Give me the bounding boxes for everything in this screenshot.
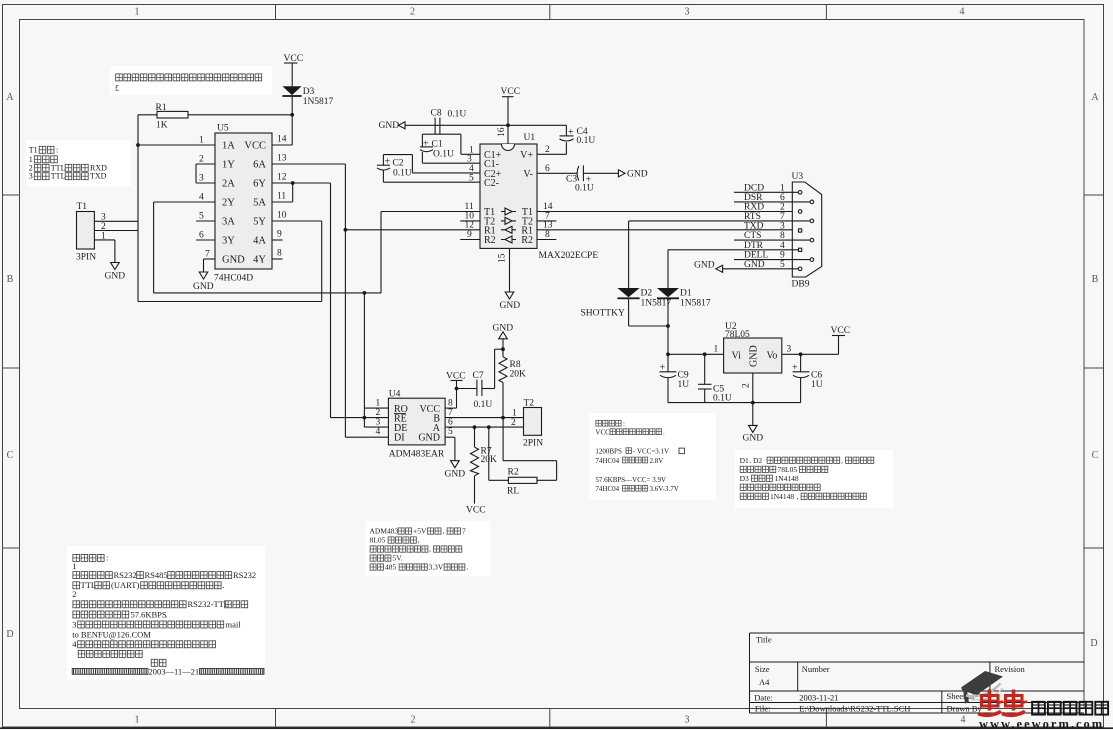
wire DTR down to D1	[667, 250, 669, 288]
svg-text:7: 7	[462, 527, 466, 536]
svg-text:1: 1	[72, 561, 76, 571]
svg-text:3Y: 3Y	[222, 236, 235, 247]
svg-text:13: 13	[277, 154, 287, 164]
svg-text:2003—11—21: 2003—11—21	[149, 667, 200, 677]
U2 pin3 wire	[782, 353, 839, 355]
svg-text:1: 1	[780, 183, 785, 193]
svg-text:C1: C1	[432, 140, 443, 150]
svg-text:4: 4	[376, 427, 381, 437]
svg-text:3: 3	[376, 418, 381, 428]
svg-text:R8: R8	[510, 360, 521, 370]
svg-text:1200BPS: 1200BPS	[595, 448, 622, 456]
svg-text:12: 12	[465, 220, 475, 230]
svg-text:GND: GND	[193, 282, 214, 292]
svg-text:Revision: Revision	[995, 664, 1026, 674]
svg-text:RS485: RS485	[145, 570, 168, 580]
eeworm logo red bug glyph 2	[1002, 690, 1027, 716]
eeworm logo black site name characters	[1032, 702, 1045, 715]
svg-text:1N5817: 1N5817	[641, 299, 672, 309]
junction R1in / 6A riser	[344, 228, 348, 232]
svg-text:14: 14	[277, 135, 287, 145]
wire C3 to ground arrow	[583, 172, 618, 174]
svg-text:6: 6	[199, 231, 204, 241]
wire 2Y down to line A	[153, 202, 155, 293]
svg-text:C7: C7	[473, 371, 484, 381]
svg-text:VCC: VCC	[831, 326, 851, 336]
capacitor C3 0.1U	[577, 166, 579, 181]
svg-text:5A: 5A	[253, 198, 266, 209]
signature hatch bar right	[200, 669, 265, 675]
svg-text:4: 4	[780, 241, 785, 251]
wire down to U4 RO/RE	[363, 293, 365, 427]
svg-text:7: 7	[448, 408, 453, 418]
svg-text::: :	[623, 420, 625, 428]
connector T2 2PIN	[524, 408, 542, 436]
svg-text:78L05: 78L05	[778, 465, 798, 474]
svg-text:Drawn By: Drawn By	[947, 704, 983, 714]
U4 pin4 wire	[345, 436, 388, 438]
svg-text:Number: Number	[802, 664, 830, 674]
svg-text:5: 5	[199, 212, 204, 222]
svg-text:74HC04: 74HC04	[595, 485, 619, 493]
U1 T1out wire to DB9 RXD	[537, 211, 798, 213]
svg-text:Title: Title	[756, 635, 772, 645]
svg-text:DSR: DSR	[744, 193, 763, 203]
svg-text:GND: GND	[743, 434, 764, 444]
svg-text:2003-11-21: 2003-11-21	[799, 693, 838, 703]
U5 pin 2 stub	[196, 163, 215, 165]
svg-text:MAX202ECPE: MAX202ECPE	[539, 251, 599, 261]
svg-text:R2: R2	[484, 235, 496, 246]
eeworm logo red bug glyph 1	[978, 690, 1003, 716]
svg-text:D: D	[1090, 638, 1097, 649]
svg-text:8: 8	[545, 230, 550, 240]
diode D3 1N5817	[282, 86, 301, 95]
U5 pin 11 stub	[272, 201, 293, 203]
svg-text:.: .	[750, 456, 752, 465]
svg-text:2: 2	[410, 7, 415, 18]
svg-text:TXD: TXD	[744, 222, 764, 232]
svg-text:Size: Size	[755, 664, 770, 674]
svg-text:VCC: VCC	[466, 506, 486, 516]
junction R1/D3/pin14	[290, 113, 294, 117]
svg-text:D3: D3	[740, 474, 749, 483]
svg-text:485: 485	[385, 563, 397, 572]
wire diode cathodes join	[628, 299, 630, 326]
svg-text:D: D	[6, 629, 13, 640]
svg-text:R2: R2	[508, 468, 519, 478]
svg-text:6: 6	[545, 164, 550, 174]
svg-text:DTR: DTR	[744, 241, 764, 251]
wire 6A down to U4 DI	[344, 164, 346, 437]
svg-text:3: 3	[467, 155, 472, 165]
svg-text:GND: GND	[418, 432, 440, 443]
eeworm logo graduation cap	[961, 671, 1003, 693]
U4 pin1 wire	[364, 407, 388, 409]
svg-text:GND: GND	[379, 121, 400, 131]
svg-text:,: ,	[841, 456, 843, 465]
svg-text:1K: 1K	[156, 121, 168, 131]
U1 T1in wire	[381, 211, 480, 213]
svg-text:D2: D2	[641, 289, 653, 299]
svg-text:C6: C6	[811, 371, 822, 381]
svg-text:1: 1	[199, 136, 204, 146]
resistor R2 RL loop	[488, 427, 490, 480]
connector U3 DB9 shell	[792, 182, 821, 277]
U1 pin15 ground	[509, 248, 511, 292]
wire line B	[138, 301, 322, 303]
title block column divider size/number	[797, 662, 799, 691]
capacitor C7 0.1U	[457, 388, 477, 390]
svg-text:0.1U: 0.1U	[575, 184, 594, 194]
svg-text:1N5817: 1N5817	[303, 97, 334, 107]
U5 pin 10 wire 5Y	[272, 220, 322, 222]
svg-text:1: 1	[135, 715, 140, 726]
svg-text:VCC: VCC	[595, 429, 610, 437]
U1 R2in stub	[460, 239, 480, 241]
svg-text:GND: GND	[105, 272, 126, 282]
U5 pin 1 wire	[138, 144, 215, 146]
U1 T2out stub	[537, 220, 556, 222]
resistor R8 20K	[502, 349, 504, 357]
svg-text:3.3V: 3.3V	[429, 563, 444, 572]
svg-text:Vi: Vi	[732, 351, 742, 362]
svg-text:E:\Downloads\RS232-TTL.SCH: E:\Downloads\RS232-TTL.SCH	[799, 704, 910, 714]
svg-text:RS232: RS232	[233, 570, 256, 580]
junction RO/RE riser	[363, 416, 367, 420]
svg-text:T2: T2	[524, 399, 535, 409]
svg-text:5Y: 5Y	[253, 217, 266, 228]
svg-text:3PIN: 3PIN	[76, 253, 96, 263]
svg-text:B: B	[1092, 274, 1099, 285]
svg-text:7: 7	[780, 212, 785, 222]
DB9 signal wires	[734, 191, 798, 193]
svg-text:10: 10	[277, 211, 287, 221]
svg-text:V+: V+	[520, 150, 533, 161]
svg-text:0.1U: 0.1U	[474, 400, 493, 410]
U5 pin2-pin3 tie	[195, 164, 197, 183]
svg-text:7: 7	[205, 250, 210, 260]
svg-text::: :	[106, 553, 108, 563]
left zone dividers	[3, 194, 20, 196]
svg-text:78L05: 78L05	[725, 330, 750, 340]
svg-text:D2: D2	[753, 456, 762, 465]
svg-text:A: A	[1091, 92, 1099, 103]
note block T1 interface	[26, 140, 131, 186]
svg-text:2: 2	[101, 222, 106, 232]
svg-text:.: .	[166, 609, 168, 619]
svg-text:DB9: DB9	[792, 280, 810, 290]
junction pin12/pin11 tie	[291, 181, 295, 185]
wire C1- to U1 pin3	[422, 162, 480, 164]
svg-text:SHOTTKY: SHOTTKY	[581, 309, 625, 319]
svg-text:0.1U: 0.1U	[713, 394, 732, 404]
wire 5Y down to line B	[321, 221, 323, 302]
wire T1 pin1 row	[94, 239, 115, 241]
ground below T1	[114, 240, 116, 263]
U1 pin2 V+ wire	[537, 153, 566, 155]
svg-text:ADM483: ADM483	[370, 527, 399, 536]
bottom outer black rule	[0, 727, 1113, 729]
svg-text:5: 5	[448, 427, 453, 437]
svg-text:57.6KBPS—VCC= 3.9V: 57.6KBPS—VCC= 3.9V	[595, 476, 666, 484]
note block ADM483 power	[366, 521, 490, 576]
svg-text:1N5817: 1N5817	[680, 299, 711, 309]
svg-text:Vo: Vo	[767, 351, 778, 362]
svg-text:RS232: RS232	[114, 570, 137, 580]
note block test results	[589, 413, 716, 500]
svg-text:R2: R2	[521, 235, 533, 246]
svg-text:+: +	[385, 157, 391, 168]
svg-text:6A: 6A	[253, 160, 266, 171]
svg-text:CTS: CTS	[744, 231, 761, 241]
junction U5 pin1	[136, 143, 140, 147]
svg-text:6: 6	[780, 193, 785, 203]
svg-text:D3: D3	[303, 87, 315, 97]
bottom zone dividers	[275, 709, 277, 728]
svg-text:74HC04: 74HC04	[595, 457, 619, 465]
svg-text:3: 3	[685, 715, 690, 726]
svg-text:+5V: +5V	[413, 527, 427, 536]
capacitor C5 0.1U	[704, 354, 706, 384]
junction A row to R7	[473, 425, 477, 429]
svg-text:,: ,	[418, 536, 420, 545]
svg-text:2A: 2A	[222, 179, 235, 190]
svg-text:2: 2	[199, 155, 204, 165]
svg-text:20K: 20K	[510, 370, 527, 380]
svg-text:V-: V-	[523, 169, 533, 180]
svg-text:2: 2	[72, 589, 76, 599]
U5 pin 12 wire 6Y	[272, 182, 331, 184]
ground below U4 pin5	[454, 437, 456, 461]
eeworm logo swoosh arc	[966, 684, 1001, 697]
svg-text:GND: GND	[749, 345, 760, 367]
connector T1 3PIN	[77, 212, 95, 250]
U5 pin 14 wire	[272, 144, 292, 146]
capacitor C1 loop top wire	[422, 133, 461, 135]
DB9 pin circles and squares	[798, 191, 802, 195]
svg-text:U3: U3	[792, 172, 804, 182]
U5 pin 4 wire 2Y	[154, 201, 215, 203]
svg-text:GND: GND	[445, 470, 466, 480]
capacitor C6 1U	[800, 354, 802, 372]
svg-text:GND: GND	[627, 170, 648, 180]
U2 pin1 wire	[668, 353, 724, 355]
svg-text:9: 9	[277, 230, 282, 240]
svg-text:C9: C9	[678, 371, 689, 381]
svg-text:3: 3	[787, 345, 792, 355]
svg-text:+: +	[423, 139, 429, 150]
svg-text:.: .	[467, 563, 469, 572]
wire R1 left vertical down	[137, 115, 139, 302]
title block column divider number/revision	[989, 662, 991, 691]
svg-text:4A: 4A	[253, 236, 266, 247]
svg-text:O.1U: O.1U	[433, 150, 454, 160]
svg-text:8: 8	[277, 249, 282, 259]
svg-text:0.1U: 0.1U	[393, 169, 412, 179]
ground arrow below U2	[752, 403, 754, 426]
svg-text:4: 4	[961, 715, 966, 726]
svg-text:3: 3	[685, 7, 690, 18]
note block diode selection	[735, 450, 893, 508]
svg-text:2: 2	[376, 408, 381, 418]
svg-text:to BENFU@126.COM: to BENFU@126.COM	[72, 630, 151, 640]
svg-text:C8: C8	[431, 109, 442, 119]
svg-text:5: 5	[469, 174, 474, 184]
svg-text:2: 2	[411, 715, 416, 726]
U4 pin3 wire	[364, 426, 388, 428]
note block top pull-up resistor	[110, 66, 272, 95]
wire 6Y down to U4 RE	[330, 183, 332, 418]
svg-text:8: 8	[448, 399, 453, 409]
U4 pin7 B wire to T2	[445, 417, 523, 419]
U1 R2out stub	[537, 239, 556, 241]
signature hatch bar left	[72, 669, 148, 675]
svg-text:1: 1	[135, 7, 140, 18]
U5 pin 13 wire 6A	[272, 163, 345, 165]
U4 RE overline	[394, 413, 406, 415]
svg-text:1: 1	[376, 399, 381, 409]
svg-text:1A: 1A	[222, 141, 235, 152]
capacitor C8 0.1U	[434, 118, 436, 135]
IC U4 ADM483EAR	[388, 398, 445, 445]
SCHEMATIC_END	[26, 66, 272, 186]
wire GND rail to C4 corner	[405, 124, 566, 126]
svg-text:DCD: DCD	[744, 183, 764, 193]
ground below U5 pin7	[203, 259, 205, 272]
U2 pin2 ground leg	[752, 373, 754, 403]
svg-text:.: .	[146, 630, 148, 640]
svg-text:1: 1	[714, 345, 719, 355]
diode D1 1N5817	[657, 288, 679, 297]
svg-text:11: 11	[277, 192, 286, 202]
svg-text:.: .	[663, 429, 665, 437]
wire line A	[154, 292, 381, 294]
svg-text:C: C	[7, 450, 14, 461]
svg-text:DI: DI	[394, 432, 405, 443]
svg-text:D1: D1	[680, 289, 692, 299]
svg-text:4Y: 4Y	[253, 255, 266, 266]
svg-text:TTL: TTL	[51, 172, 66, 181]
svg-text:1N4148: 1N4148	[770, 492, 794, 501]
svg-text:5: 5	[780, 260, 785, 270]
ground bus below U2	[668, 402, 801, 404]
svg-text:B: B	[7, 274, 14, 285]
svg-text:C: C	[1092, 450, 1099, 461]
U5 pin 3 stub	[196, 182, 215, 184]
U1 pin number labels	[465, 127, 553, 263]
svg-text:T1: T1	[77, 202, 88, 212]
svg-text:,: ,	[443, 527, 445, 536]
svg-text:1N4148: 1N4148	[775, 474, 799, 483]
svg-text:GND: GND	[744, 260, 765, 270]
svg-text:57.6KBPS: 57.6KBPS	[131, 609, 167, 619]
svg-text:3A: 3A	[222, 217, 235, 228]
svg-text:,: ,	[797, 492, 799, 501]
svg-text:,: ,	[429, 545, 431, 554]
svg-text:GND: GND	[694, 261, 715, 271]
svg-text:12: 12	[277, 173, 287, 183]
resistor R1	[138, 114, 157, 116]
svg-text:2: 2	[511, 418, 516, 428]
svg-text:- VCC=3.1V: - VCC=3.1V	[633, 448, 669, 456]
diode D2 1N5817	[617, 288, 639, 297]
top zone dividers	[275, 5, 277, 20]
svg-text:mail: mail	[226, 619, 242, 629]
svg-text:5V.: 5V.	[393, 554, 403, 563]
svg-text:8: 8	[780, 231, 785, 241]
U1 R1in wire	[345, 229, 480, 231]
svg-text:9: 9	[467, 230, 472, 240]
resistor R7 20K	[474, 427, 476, 447]
svg-text:RTS: RTS	[744, 212, 761, 222]
svg-text:.: .	[223, 580, 225, 590]
svg-text:A: A	[6, 92, 14, 103]
wire R7 down to VCC	[474, 476, 476, 504]
svg-text:TTL: TTL	[81, 580, 97, 590]
U5 pin 5 stub	[196, 220, 215, 222]
svg-text:2.8V: 2.8V	[650, 457, 664, 465]
svg-text:4: 4	[960, 7, 965, 18]
U4 pin5 stub	[445, 436, 455, 438]
svg-text:VCC: VCC	[244, 141, 266, 152]
capacitor C4 0.1U	[565, 125, 567, 136]
svg-text:R1: R1	[156, 103, 167, 113]
svg-text:13: 13	[543, 220, 553, 230]
svg-text:VCC: VCC	[501, 87, 521, 97]
svg-text:3: 3	[101, 213, 106, 223]
svg-text:U5: U5	[217, 124, 229, 134]
svg-text:15: 15	[498, 253, 508, 263]
svg-text:74HC04D: 74HC04D	[214, 274, 253, 284]
svg-text:6: 6	[448, 418, 453, 428]
U5 pin 7 GND stub	[204, 258, 216, 260]
junction A row to RL loop	[487, 425, 491, 429]
svg-text:RS232-TTL: RS232-TTL	[188, 599, 230, 609]
svg-text:2PIN: 2PIN	[523, 439, 543, 449]
svg-text:4: 4	[72, 639, 77, 649]
title block column divider date/sheet	[941, 691, 943, 713]
svg-text:2: 2	[545, 145, 550, 155]
svg-text:C2: C2	[393, 159, 404, 169]
wire D3 to junction and U5 pin14	[291, 97, 293, 145]
svg-text:3: 3	[29, 172, 33, 181]
junction line A to RO/RE	[363, 291, 367, 295]
DB9 signal names	[744, 183, 785, 269]
U4 pin8 stub	[445, 407, 456, 409]
IC U1 MAX202ECPE	[480, 144, 537, 248]
svg-text:£: £	[115, 84, 119, 93]
svg-text:1U: 1U	[811, 380, 823, 390]
svg-text:3: 3	[72, 619, 76, 629]
U1 T2in stub	[460, 220, 480, 222]
wire C7 riser to GND/R8 node	[494, 349, 496, 388]
note block circuit description	[67, 546, 265, 680]
svg-text:U4: U4	[389, 390, 401, 400]
svg-text:2: 2	[742, 383, 752, 388]
svg-text:D1: D1	[740, 456, 749, 465]
svg-text:1: 1	[512, 409, 517, 419]
wire R8 down to B row	[502, 383, 504, 418]
svg-text:GND: GND	[222, 255, 245, 266]
svg-text:File:: File:	[755, 704, 771, 714]
svg-text::: :	[56, 145, 58, 154]
U5 pin 9 stub	[272, 239, 283, 241]
svg-text:0.1U: 0.1U	[448, 110, 467, 120]
wire C2- to U1 pin5	[383, 181, 480, 183]
junction VCC/pin16 rail	[506, 123, 510, 127]
svg-text:U1: U1	[524, 133, 536, 143]
